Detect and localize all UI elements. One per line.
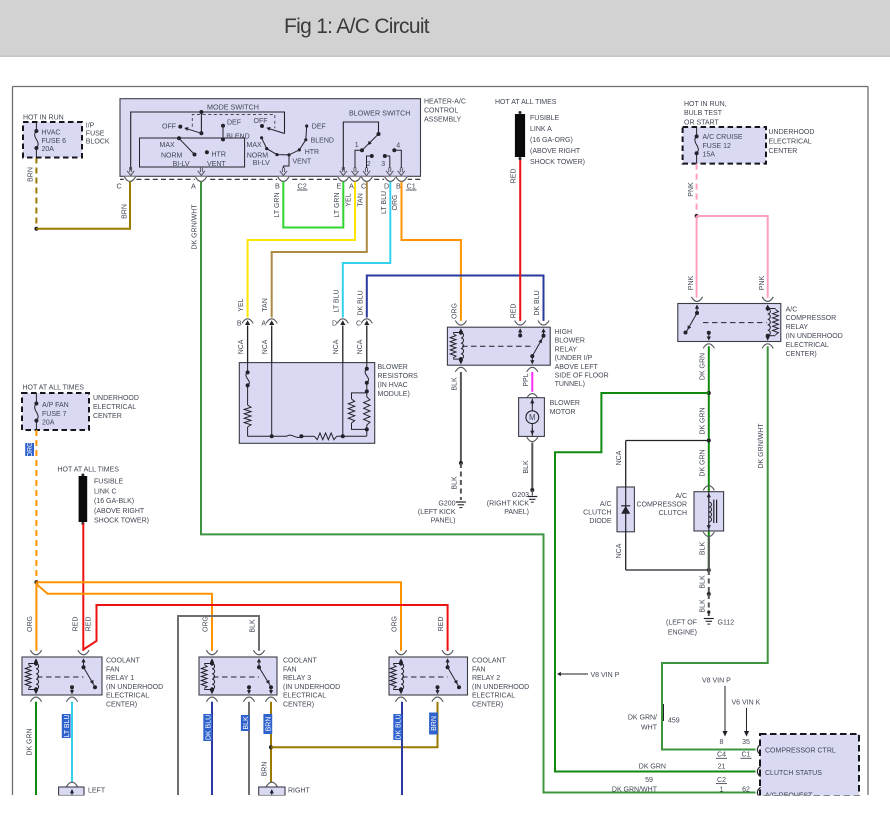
svg-text:MODE SWITCH: MODE SWITCH bbox=[207, 103, 259, 112]
svg-text:COMPRESSOR: COMPRESSOR bbox=[636, 501, 687, 508]
svg-text:RELAY 2: RELAY 2 bbox=[472, 675, 500, 682]
svg-text:LEFT: LEFT bbox=[88, 788, 106, 795]
svg-text:DK GRN/WHT: DK GRN/WHT bbox=[612, 786, 658, 793]
svg-text:(LEFT KICK: (LEFT KICK bbox=[418, 509, 456, 516]
svg-text:459: 459 bbox=[668, 718, 680, 725]
svg-text:BRN: BRN bbox=[27, 167, 34, 182]
svg-text:A/C: A/C bbox=[786, 307, 798, 314]
svg-text:(LEFT OF: (LEFT OF bbox=[666, 620, 697, 627]
svg-text:ORG: ORG bbox=[392, 195, 399, 211]
svg-text:(ABOVE RIGHT: (ABOVE RIGHT bbox=[94, 508, 145, 515]
svg-text:FAN: FAN bbox=[106, 666, 120, 673]
svg-text:PPL: PPL bbox=[523, 373, 530, 386]
svg-text:OFF: OFF bbox=[162, 124, 176, 131]
svg-text:ORG: ORG bbox=[27, 442, 34, 458]
svg-text:CENTER): CENTER) bbox=[472, 702, 503, 709]
svg-text:(IN HVAC: (IN HVAC bbox=[378, 382, 408, 389]
svg-text:BLOCK: BLOCK bbox=[86, 139, 110, 146]
svg-text:DK GRN: DK GRN bbox=[699, 353, 706, 380]
svg-text:V8 VIN P: V8 VIN P bbox=[702, 678, 731, 685]
svg-text:E: E bbox=[337, 181, 342, 190]
svg-text:G200: G200 bbox=[438, 501, 455, 508]
svg-text:NCA: NCA bbox=[333, 339, 340, 354]
svg-text:NCA: NCA bbox=[616, 450, 623, 465]
svg-text:C: C bbox=[117, 181, 122, 190]
svg-text:V8 VIN P: V8 VIN P bbox=[591, 672, 620, 679]
svg-text:(IN UNDERHOOD: (IN UNDERHOOD bbox=[786, 333, 843, 340]
svg-text:PNK: PNK bbox=[688, 182, 695, 197]
svg-text:VENT: VENT bbox=[293, 159, 312, 166]
svg-text:A/C CRUISE: A/C CRUISE bbox=[703, 134, 743, 141]
svg-text:HOT AT ALL TIMES: HOT AT ALL TIMES bbox=[58, 467, 120, 474]
svg-text:DK BLU: DK BLU bbox=[357, 290, 364, 315]
svg-text:(16 GA-BLK): (16 GA-BLK) bbox=[94, 498, 134, 505]
svg-text:FUSE 12: FUSE 12 bbox=[703, 143, 732, 150]
svg-text:DK GRN: DK GRN bbox=[27, 728, 34, 755]
svg-text:RED: RED bbox=[73, 617, 80, 632]
svg-text:NCA: NCA bbox=[262, 339, 269, 354]
svg-text:SIDE OF FLOOR: SIDE OF FLOOR bbox=[555, 373, 609, 380]
svg-text:BRN: BRN bbox=[265, 717, 272, 732]
svg-text:M: M bbox=[529, 413, 536, 422]
svg-text:D: D bbox=[332, 321, 337, 328]
svg-text:NORM: NORM bbox=[247, 153, 269, 160]
svg-text:CENTER: CENTER bbox=[93, 413, 122, 420]
svg-text:(ABOVE RIGHT: (ABOVE RIGHT bbox=[530, 148, 581, 155]
svg-text:BLK: BLK bbox=[243, 716, 250, 730]
svg-text:D: D bbox=[384, 181, 389, 190]
svg-text:PNK: PNK bbox=[759, 275, 766, 290]
svg-text:BI-LV: BI-LV bbox=[253, 160, 270, 167]
svg-text:ELECTRICAL: ELECTRICAL bbox=[283, 693, 326, 700]
svg-text:62: 62 bbox=[742, 786, 750, 793]
svg-text:BRN: BRN bbox=[261, 762, 268, 777]
svg-text:BLK: BLK bbox=[699, 575, 706, 589]
svg-text:I/P: I/P bbox=[86, 123, 95, 130]
svg-text:MAX: MAX bbox=[160, 142, 176, 149]
svg-text:RELAY: RELAY bbox=[555, 346, 578, 353]
svg-text:ASSEMBLY: ASSEMBLY bbox=[424, 117, 462, 124]
svg-text:HOT IN RUN: HOT IN RUN bbox=[23, 115, 64, 122]
svg-text:BLOWER: BLOWER bbox=[378, 364, 408, 371]
svg-text:UNDERHOOD: UNDERHOOD bbox=[93, 395, 139, 402]
svg-text:YEL: YEL bbox=[238, 298, 245, 311]
svg-text:21: 21 bbox=[718, 764, 726, 771]
svg-text:B: B bbox=[275, 181, 280, 190]
svg-text:NCA: NCA bbox=[616, 543, 623, 558]
svg-text:20A: 20A bbox=[42, 420, 55, 427]
svg-text:4: 4 bbox=[396, 143, 400, 150]
svg-text:LT BLU: LT BLU bbox=[381, 191, 388, 214]
svg-text:G203: G203 bbox=[512, 492, 529, 499]
svg-text:ABOVE LEFT: ABOVE LEFT bbox=[555, 364, 599, 371]
svg-text:BLK: BLK bbox=[250, 619, 257, 633]
svg-text:C2: C2 bbox=[298, 181, 307, 190]
svg-text:TUNNEL): TUNNEL) bbox=[555, 381, 585, 388]
svg-text:COOLANT: COOLANT bbox=[106, 658, 141, 665]
svg-text:ORG: ORG bbox=[27, 616, 34, 632]
svg-text:PANEL): PANEL) bbox=[431, 518, 456, 525]
svg-text:RIGHT: RIGHT bbox=[288, 788, 311, 795]
svg-text:DK GRN: DK GRN bbox=[699, 449, 706, 476]
svg-text:LT BLU: LT BLU bbox=[64, 714, 71, 737]
svg-text:BLOWER: BLOWER bbox=[550, 400, 580, 407]
svg-text:Fig 1: A/C Circuit: Fig 1: A/C Circuit bbox=[284, 15, 430, 38]
svg-text:SHOCK TOWER): SHOCK TOWER) bbox=[94, 518, 149, 525]
svg-text:1: 1 bbox=[355, 142, 359, 149]
svg-text:DEF: DEF bbox=[312, 124, 326, 131]
svg-text:35: 35 bbox=[742, 739, 750, 746]
svg-text:RED: RED bbox=[86, 617, 93, 632]
svg-text:C: C bbox=[356, 321, 361, 328]
svg-text:BRN: BRN bbox=[431, 716, 438, 731]
svg-text:BULB TEST: BULB TEST bbox=[684, 110, 723, 117]
svg-text:HIGH: HIGH bbox=[555, 329, 573, 336]
svg-text:DEF: DEF bbox=[227, 119, 241, 126]
svg-text:HOT AT ALL TIMES: HOT AT ALL TIMES bbox=[23, 385, 85, 392]
svg-text:COMPRESSOR: COMPRESSOR bbox=[786, 315, 837, 322]
svg-text:FUSE 6: FUSE 6 bbox=[42, 138, 67, 145]
svg-text:OR START: OR START bbox=[684, 119, 719, 126]
svg-text:BLK: BLK bbox=[699, 542, 706, 556]
svg-text:TAN: TAN bbox=[262, 298, 269, 311]
svg-text:15A: 15A bbox=[703, 152, 716, 159]
svg-text:COOLANT: COOLANT bbox=[283, 658, 318, 665]
svg-text:C4: C4 bbox=[717, 752, 726, 759]
svg-text:(16 GA-ORG): (16 GA-ORG) bbox=[530, 137, 573, 144]
svg-text:A/C: A/C bbox=[675, 493, 687, 500]
svg-text:ELECTRICAL: ELECTRICAL bbox=[472, 693, 515, 700]
svg-text:C1: C1 bbox=[742, 752, 751, 759]
svg-text:(IN UNDERHOOD: (IN UNDERHOOD bbox=[106, 684, 163, 691]
svg-text:CLUTCH: CLUTCH bbox=[583, 510, 611, 517]
svg-text:BLK: BLK bbox=[451, 476, 458, 490]
svg-text:HOT IN RUN,: HOT IN RUN, bbox=[684, 101, 727, 108]
svg-text:BLOWER: BLOWER bbox=[555, 338, 585, 345]
svg-text:FUSE 7: FUSE 7 bbox=[42, 411, 67, 418]
svg-text:RED: RED bbox=[511, 169, 518, 184]
svg-text:RELAY 3: RELAY 3 bbox=[283, 675, 311, 682]
svg-text:V6 VIN K: V6 VIN K bbox=[732, 700, 761, 707]
svg-text:RED: RED bbox=[438, 617, 445, 632]
svg-text:ELECTRICAL: ELECTRICAL bbox=[769, 139, 812, 146]
svg-text:ORG: ORG bbox=[202, 616, 209, 632]
svg-text:(IN UNDERHOOD: (IN UNDERHOOD bbox=[472, 684, 529, 691]
svg-text:BLK: BLK bbox=[451, 377, 458, 391]
svg-text:TAN: TAN bbox=[357, 193, 364, 206]
svg-text:BLOWER SWITCH: BLOWER SWITCH bbox=[349, 109, 411, 118]
svg-text:MOTOR: MOTOR bbox=[550, 409, 576, 416]
svg-text:RESISTORS: RESISTORS bbox=[378, 373, 419, 380]
svg-text:HTR: HTR bbox=[212, 152, 226, 159]
svg-text:RELAY 1: RELAY 1 bbox=[106, 675, 134, 682]
svg-text:VENT: VENT bbox=[207, 161, 226, 168]
svg-text:DK BLU: DK BLU bbox=[205, 715, 212, 740]
svg-text:RED: RED bbox=[511, 304, 518, 319]
svg-text:FAN: FAN bbox=[472, 666, 486, 673]
svg-text:20A: 20A bbox=[42, 146, 55, 153]
svg-text:FUSIBLE: FUSIBLE bbox=[94, 479, 124, 486]
svg-text:LT BLU: LT BLU bbox=[333, 289, 340, 312]
svg-text:B: B bbox=[237, 321, 242, 328]
svg-text:(RIGHT KICK: (RIGHT KICK bbox=[487, 501, 530, 508]
svg-text:UNDERHOOD: UNDERHOOD bbox=[769, 129, 815, 136]
svg-text:(UNDER I/P: (UNDER I/P bbox=[555, 355, 593, 362]
svg-text:B: B bbox=[396, 181, 401, 190]
svg-text:DIODE: DIODE bbox=[589, 518, 612, 525]
svg-text:DK BLU: DK BLU bbox=[534, 290, 541, 315]
svg-text:ELECTRICAL: ELECTRICAL bbox=[106, 693, 149, 700]
svg-text:HEATER-A/C: HEATER-A/C bbox=[424, 99, 466, 106]
svg-text:MODULE): MODULE) bbox=[378, 391, 410, 398]
svg-text:LT GRN: LT GRN bbox=[274, 192, 281, 217]
svg-text:CENTER: CENTER bbox=[769, 148, 798, 155]
svg-text:ORG: ORG bbox=[451, 303, 458, 319]
svg-text:ENGINE): ENGINE) bbox=[668, 630, 697, 637]
svg-text:A: A bbox=[261, 321, 266, 328]
svg-text:ELECTRICAL: ELECTRICAL bbox=[786, 342, 829, 349]
svg-text:ORG: ORG bbox=[391, 616, 398, 632]
svg-text:DK GRN/WHT: DK GRN/WHT bbox=[191, 204, 198, 250]
svg-text:DK GRN/: DK GRN/ bbox=[628, 715, 657, 722]
svg-text:1: 1 bbox=[720, 786, 724, 793]
svg-text:BRN: BRN bbox=[122, 204, 129, 219]
svg-text:HOT AT ALL TIMES: HOT AT ALL TIMES bbox=[495, 99, 557, 106]
svg-text:MAX: MAX bbox=[247, 142, 263, 149]
svg-text:(IN UNDERHOOD: (IN UNDERHOOD bbox=[283, 684, 340, 691]
svg-text:DK BLU: DK BLU bbox=[395, 714, 402, 739]
svg-text:BLEND: BLEND bbox=[226, 133, 249, 140]
svg-text:HVAC: HVAC bbox=[42, 130, 61, 137]
svg-text:NCA: NCA bbox=[357, 339, 364, 354]
svg-text:A/C: A/C bbox=[600, 501, 612, 508]
svg-text:PNK: PNK bbox=[688, 275, 695, 290]
svg-text:BLEND: BLEND bbox=[311, 138, 334, 145]
svg-text:YEL: YEL bbox=[346, 193, 353, 206]
svg-text:BI-LV: BI-LV bbox=[173, 161, 190, 168]
svg-text:RELAY: RELAY bbox=[786, 324, 809, 331]
svg-text:BLK: BLK bbox=[699, 599, 706, 613]
svg-text:HTR: HTR bbox=[305, 149, 319, 156]
svg-text:DK GRN/WHT: DK GRN/WHT bbox=[758, 423, 765, 469]
svg-text:59: 59 bbox=[645, 777, 653, 784]
svg-text:COOLANT: COOLANT bbox=[472, 658, 507, 665]
svg-text:8: 8 bbox=[720, 739, 724, 746]
svg-text:NORM: NORM bbox=[161, 153, 183, 160]
svg-text:CENTER): CENTER) bbox=[106, 702, 137, 709]
svg-text:FUSE: FUSE bbox=[86, 131, 105, 138]
svg-text:G112: G112 bbox=[718, 620, 735, 627]
svg-text:LT GRN: LT GRN bbox=[334, 192, 341, 217]
svg-text:CENTER): CENTER) bbox=[786, 351, 817, 358]
svg-text:SHOCK TOWER): SHOCK TOWER) bbox=[530, 159, 585, 166]
svg-text:BLK: BLK bbox=[523, 460, 530, 474]
svg-text:PANEL): PANEL) bbox=[504, 509, 529, 516]
svg-text:CLUTCH: CLUTCH bbox=[659, 510, 687, 517]
svg-text:CLUTCH STATUS: CLUTCH STATUS bbox=[765, 770, 822, 777]
svg-text:C1: C1 bbox=[407, 181, 416, 190]
svg-text:CONTROL: CONTROL bbox=[424, 108, 458, 115]
svg-text:DK GRN: DK GRN bbox=[699, 407, 706, 434]
svg-text:DK GRN: DK GRN bbox=[639, 764, 666, 771]
svg-text:NCA: NCA bbox=[238, 339, 245, 354]
svg-text:WHT: WHT bbox=[641, 725, 658, 732]
svg-text:C2: C2 bbox=[717, 777, 726, 784]
svg-text:A/P FAN: A/P FAN bbox=[42, 402, 69, 409]
svg-text:LINK A: LINK A bbox=[530, 126, 552, 133]
svg-text:ELECTRICAL: ELECTRICAL bbox=[93, 404, 136, 411]
svg-text:A: A bbox=[191, 181, 196, 190]
svg-text:LINK C: LINK C bbox=[94, 488, 117, 495]
svg-text:A: A bbox=[349, 181, 354, 190]
svg-text:FAN: FAN bbox=[283, 666, 297, 673]
svg-text:C: C bbox=[361, 181, 366, 190]
svg-text:2: 2 bbox=[367, 161, 371, 168]
svg-text:3: 3 bbox=[381, 161, 385, 168]
svg-text:CENTER): CENTER) bbox=[283, 702, 314, 709]
svg-text:FUSIBLE: FUSIBLE bbox=[530, 115, 560, 122]
svg-text:COMPRESSOR CTRL: COMPRESSOR CTRL bbox=[765, 748, 836, 755]
svg-text:OFF: OFF bbox=[254, 118, 268, 125]
